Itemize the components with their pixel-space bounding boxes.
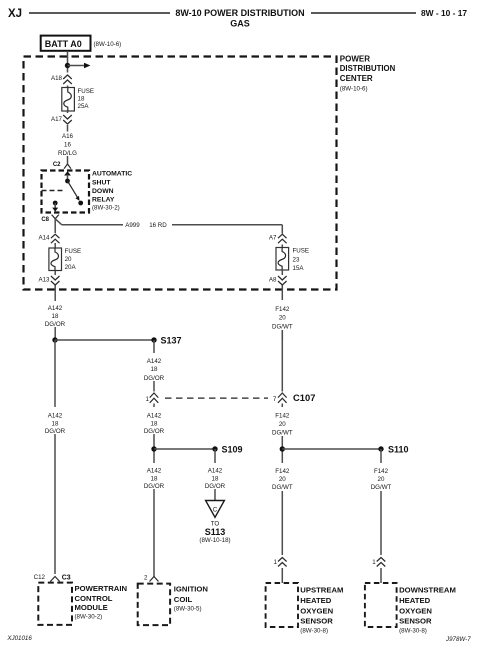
svg-text:C107: C107: [293, 392, 315, 403]
svg-text:20: 20: [378, 476, 385, 483]
svg-text:COIL: COIL: [174, 595, 193, 604]
svg-text:F142: F142: [275, 413, 290, 420]
svg-text:A142: A142: [48, 413, 63, 420]
svg-text:(8W-30-5): (8W-30-5): [174, 606, 202, 613]
svg-text:1: 1: [146, 396, 150, 403]
svg-text:RELAY: RELAY: [92, 196, 115, 203]
svg-text:A13: A13: [38, 277, 50, 284]
svg-text:F142: F142: [275, 306, 290, 313]
svg-text:MODULE: MODULE: [75, 603, 108, 612]
svg-text:A142: A142: [147, 468, 162, 475]
svg-text:20: 20: [279, 315, 286, 322]
svg-text:1: 1: [372, 559, 376, 566]
svg-text:SENSOR: SENSOR: [399, 617, 432, 626]
svg-text:18: 18: [52, 313, 59, 320]
svg-text:DOWN: DOWN: [92, 188, 114, 195]
svg-text:DISTRIBUTION: DISTRIBUTION: [340, 64, 396, 73]
svg-text:DG/OR: DG/OR: [144, 428, 165, 435]
svg-text:S109: S109: [222, 445, 243, 455]
svg-text:IGNITION: IGNITION: [174, 585, 209, 594]
svg-text:18: 18: [52, 421, 59, 428]
svg-text:POWERTRAIN: POWERTRAIN: [75, 584, 128, 593]
svg-text:18: 18: [151, 476, 158, 483]
svg-text:20: 20: [279, 421, 286, 428]
svg-text:DG/WT: DG/WT: [371, 484, 392, 491]
svg-text:C: C: [213, 507, 218, 514]
svg-text:UPSTREAM: UPSTREAM: [300, 586, 343, 595]
svg-text:DG/OR: DG/OR: [144, 483, 165, 490]
svg-text:8W - 10 - 17: 8W - 10 - 17: [421, 8, 467, 18]
svg-text:A999: A999: [125, 222, 140, 229]
svg-text:18: 18: [151, 421, 158, 428]
svg-text:2: 2: [144, 575, 148, 582]
svg-text:18: 18: [78, 96, 85, 103]
svg-text:20: 20: [279, 476, 286, 483]
svg-text:DG/OR: DG/OR: [144, 375, 165, 382]
svg-text:C8: C8: [41, 217, 49, 223]
svg-text:(8W-30-2): (8W-30-2): [92, 205, 120, 212]
svg-text:25A: 25A: [78, 103, 90, 110]
svg-text:(8W-30-2): (8W-30-2): [75, 614, 103, 621]
svg-text:DG/OR: DG/OR: [205, 483, 226, 490]
svg-text:XJ: XJ: [8, 8, 22, 20]
svg-text:15A: 15A: [293, 265, 305, 272]
svg-text:POWER: POWER: [340, 55, 370, 64]
svg-text:C3: C3: [62, 575, 71, 582]
svg-text:23: 23: [293, 257, 300, 264]
svg-text:FUSE: FUSE: [78, 88, 95, 95]
svg-text:S113: S113: [205, 527, 226, 537]
svg-text:FUSE: FUSE: [293, 248, 310, 255]
svg-text:1: 1: [274, 559, 278, 566]
svg-text:A142: A142: [208, 468, 223, 475]
svg-text:A7: A7: [269, 235, 277, 242]
svg-text:(8W-10-18): (8W-10-18): [199, 537, 230, 544]
svg-text:18: 18: [151, 366, 158, 373]
svg-text:BATT A0: BATT A0: [45, 39, 82, 49]
svg-text:OXYGEN: OXYGEN: [300, 607, 333, 616]
svg-text:HEATED: HEATED: [399, 596, 430, 605]
svg-text:XJ01016: XJ01016: [6, 635, 32, 642]
svg-text:DG/OR: DG/OR: [45, 321, 66, 328]
svg-text:DG/WT: DG/WT: [272, 324, 293, 331]
svg-text:C12: C12: [34, 574, 46, 581]
svg-text:RD/LG: RD/LG: [58, 150, 77, 157]
svg-text:GAS: GAS: [230, 19, 250, 29]
svg-text:F142: F142: [374, 468, 389, 475]
svg-text:18: 18: [212, 476, 219, 483]
svg-text:A16: A16: [62, 133, 74, 140]
svg-text:S110: S110: [388, 445, 409, 455]
svg-text:16 RD: 16 RD: [149, 222, 167, 229]
svg-text:DG/WT: DG/WT: [272, 484, 293, 491]
svg-text:A142: A142: [147, 358, 162, 365]
svg-text:16: 16: [64, 142, 71, 149]
svg-text:A142: A142: [147, 413, 162, 420]
svg-text:C2: C2: [53, 162, 61, 168]
svg-text:7: 7: [273, 396, 277, 403]
svg-text:FUSE: FUSE: [65, 248, 82, 255]
svg-text:F142: F142: [275, 468, 290, 475]
svg-text:A8: A8: [269, 277, 277, 284]
svg-text:SENSOR: SENSOR: [300, 617, 333, 626]
svg-text:CENTER: CENTER: [340, 74, 373, 83]
svg-text:A18: A18: [51, 75, 63, 82]
svg-text:J978W-7: J978W-7: [445, 636, 471, 643]
svg-text:SHUT: SHUT: [92, 179, 111, 186]
svg-text:20: 20: [65, 256, 72, 263]
svg-text:A142: A142: [48, 305, 63, 312]
svg-text:DG/WT: DG/WT: [272, 430, 293, 437]
svg-text:(8W-10-6): (8W-10-6): [340, 85, 368, 92]
svg-text:8W-10 POWER DISTRIBUTION: 8W-10 POWER DISTRIBUTION: [175, 8, 304, 18]
svg-text:A17: A17: [51, 116, 63, 123]
svg-text:DG/OR: DG/OR: [45, 428, 66, 435]
svg-text:DOWNSTREAM: DOWNSTREAM: [399, 586, 456, 595]
svg-text:20A: 20A: [65, 264, 77, 271]
svg-text:CONTROL: CONTROL: [75, 594, 113, 603]
svg-text:S137: S137: [161, 336, 182, 346]
svg-text:(8W-30-8): (8W-30-8): [399, 628, 427, 635]
svg-text:(8W-10-6): (8W-10-6): [94, 41, 122, 48]
svg-text:A14: A14: [38, 235, 50, 242]
svg-text:(8W-30-8): (8W-30-8): [300, 628, 328, 635]
svg-text:AUTOMATIC: AUTOMATIC: [92, 171, 132, 178]
svg-text:HEATED: HEATED: [300, 596, 331, 605]
svg-text:OXYGEN: OXYGEN: [399, 607, 432, 616]
